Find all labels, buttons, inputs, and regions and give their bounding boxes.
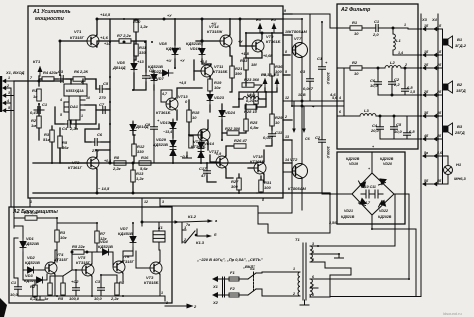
- svg-text:КД521В: КД521В: [25, 260, 40, 265]
- svg-text:+13: +13: [137, 59, 145, 64]
- wire C17: [206, 163, 208, 168]
- svg-text:R1: R1: [32, 88, 38, 93]
- diode VD10: [186, 41, 205, 59]
- wire ground bus out: [164, 296, 166, 301]
- ground protection: [36, 296, 44, 300]
- svg-text:3: 3: [162, 200, 164, 204]
- diode VD7p vertical: [118, 226, 136, 247]
- svg-text:Х4: Х4: [431, 17, 438, 22]
- svg-text:1: 1: [293, 267, 295, 271]
- wires lower protection: [50, 276, 63, 283]
- svg-text:КД451В: КД451В: [118, 231, 133, 236]
- svg-text:10к: 10к: [60, 235, 67, 240]
- svg-text:10: 10: [275, 120, 280, 125]
- wire VT9 base: [240, 45, 254, 47]
- svg-text:КТ1: КТ1: [33, 59, 41, 64]
- contact K1.3: [182, 222, 217, 245]
- resistor R28: [244, 105, 258, 114]
- filter internal bus: [343, 101, 345, 106]
- svg-text:2б: 2б: [423, 63, 429, 67]
- transistor VT8 KT805AM bottom: [288, 157, 308, 191]
- svg-text:36к: 36к: [62, 145, 69, 150]
- wire VT11 collector: [210, 64, 212, 65]
- svg-text:КТ805АМ: КТ805АМ: [289, 29, 308, 34]
- wire VT8 emitter: [301, 179, 303, 206]
- resistor R2 filter: [350, 60, 362, 76]
- connector X3 bus: [420, 14, 422, 296]
- svg-text:С1: С1: [374, 19, 380, 24]
- diode VD19: [346, 157, 366, 188]
- svg-text:2б: 2б: [436, 63, 442, 67]
- svg-text:КД521В: КД521В: [24, 241, 39, 246]
- svg-text:5а: 5а: [424, 151, 428, 155]
- wire K1.2 line out: [142, 221, 182, 223]
- transistor VT12: [191, 129, 210, 149]
- diode VD7p: [98, 239, 113, 255]
- inductor L1 filter: [393, 34, 401, 50]
- connector X1 pin 2: [2, 84, 11, 90]
- wire VT17: [210, 155, 216, 162]
- svg-text:1б: 1б: [437, 24, 442, 28]
- svg-text:КТ315Г: КТ315Г: [70, 35, 85, 40]
- svg-text:+14: +14: [104, 42, 110, 46]
- svg-text:− 14,5: − 14,5: [98, 186, 110, 191]
- wire VT1 emitter to R7: [97, 41, 119, 47]
- wire mid-left column x110: [109, 19, 111, 163]
- wire x351 vert: [330, 268, 351, 297]
- wire input bus a: [10, 88, 12, 103]
- wire x164 diode column: [174, 19, 176, 45]
- svg-text:F1: F1: [230, 270, 235, 275]
- svg-text:1б: 1б: [424, 50, 429, 54]
- wire bridge out right to connector: [405, 194, 409, 279]
- wire VT8 base: [283, 140, 292, 171]
- diode VD20: [379, 157, 394, 185]
- test point E3: [261, 72, 267, 88]
- svg-text:VD23: VD23: [214, 95, 225, 100]
- svg-text:КТ315Б: КТ315Б: [213, 69, 228, 74]
- svg-text:VD13: VD13: [160, 120, 171, 125]
- svg-text:4: 4: [6, 99, 9, 103]
- block A2 protection box: [9, 207, 172, 303]
- svg-text:2: 2: [165, 301, 168, 305]
- pin pair row2: [422, 50, 442, 57]
- wire x292 down: [291, 171, 293, 210]
- diode VD23: [207, 91, 225, 105]
- wire x292 to transformer area: [258, 210, 292, 213]
- svg-text:R6: R6: [74, 69, 80, 74]
- transistor VT7 KT805AM top: [289, 29, 308, 58]
- capacitor C13: [300, 69, 314, 91]
- svg-text:А2 Блок защиты: А2 Блок защиты: [12, 209, 58, 215]
- capacitor C6: [91, 132, 103, 153]
- svg-text:10: 10: [192, 115, 197, 120]
- resistor R10b: [139, 155, 151, 171]
- wire R6 row: [66, 78, 73, 80]
- pin pair row3: [422, 63, 442, 70]
- svg-text:2,2К: 2,2К: [79, 69, 89, 74]
- pin pair row4: [422, 90, 442, 97]
- inductor L3 filter: [360, 108, 376, 116]
- node dot input: [38, 80, 40, 82]
- svg-text:2,2к: 2,2к: [110, 296, 120, 301]
- svg-text:КД202В: КД202В: [378, 215, 392, 219]
- svg-text:Д814Д: Д814Д: [112, 65, 126, 70]
- svg-text:4,7: 4,7: [364, 201, 371, 205]
- svg-text:R8: R8: [114, 155, 120, 160]
- arrow tap b: [302, 106, 306, 133]
- resistor R8: [112, 155, 126, 171]
- wire VT12 base: [189, 134, 198, 136]
- svg-text:Т1: Т1: [295, 237, 300, 242]
- transistor VT11: [201, 64, 228, 77]
- wire x134 lower: [133, 135, 135, 144]
- svg-text:100: 100: [264, 185, 271, 190]
- svg-text:7а: 7а: [186, 223, 190, 227]
- inductor L1: [243, 92, 259, 99]
- resistor R17 loop: [161, 90, 172, 102]
- wire VT9 collector: [261, 33, 263, 39]
- svg-text:+С2: +С2: [71, 279, 79, 284]
- resistor R3p: [55, 230, 68, 242]
- svg-text:КД521В: КД521В: [166, 46, 181, 51]
- svg-text:+0,3В: +0,3В: [262, 73, 272, 77]
- block A1 amplifier box: [28, 6, 283, 198]
- svg-text:1: 1: [161, 291, 163, 295]
- wire R4 C3 row: [39, 78, 42, 80]
- arrow tap a: [292, 101, 296, 133]
- svg-text:47: 47: [200, 173, 206, 178]
- svg-text:−13,4: −13,4: [163, 130, 172, 134]
- svg-text:6: 6: [339, 110, 342, 114]
- svg-text:VD10: VD10: [190, 46, 201, 51]
- svg-text:10,0: 10,0: [94, 296, 103, 301]
- wire zener VD5 column: [133, 41, 135, 62]
- svg-text:390: 390: [235, 71, 242, 76]
- diode VD27: [148, 64, 173, 76]
- scan corner blob: [0, 298, 7, 317]
- wire VT5 em: [91, 276, 93, 296]
- wire filter row3: [337, 115, 360, 117]
- connector X2 pin1 arrow: [212, 276, 229, 289]
- connector X4 bus: [437, 14, 439, 184]
- wire top feed from A1: [29, 198, 31, 207]
- resistor R9p: [58, 283, 65, 301]
- wire fuse2 to switch: [239, 294, 248, 296]
- svg-text:100,0: 100,0: [69, 296, 80, 301]
- svg-text:А2 Фильтр: А2 Фильтр: [340, 7, 370, 13]
- resistor R4p: [95, 231, 108, 243]
- transistor VT18: [250, 154, 266, 174]
- transistor VT5p: [76, 255, 94, 276]
- svg-text:С17: С17: [199, 166, 207, 171]
- resistor R2p: [30, 284, 39, 301]
- capacitor C4f: [370, 123, 384, 133]
- svg-text:10к: 10к: [214, 85, 221, 90]
- wire VD24 col: [221, 104, 223, 110]
- wire x201 diode col low: [200, 130, 202, 140]
- svg-text:15ГД: 15ГД: [456, 88, 466, 93]
- svg-text:10,0: 10,0: [370, 83, 379, 88]
- wire row1 mid: [362, 27, 372, 29]
- resistor R23: [242, 77, 260, 87]
- svg-text:VT7: VT7: [294, 36, 302, 41]
- svg-text:КТ315Г: КТ315Г: [76, 260, 91, 265]
- wire relay feed: [142, 221, 159, 223]
- test point E3b: [274, 72, 280, 88]
- svg-text:9: 9: [284, 9, 286, 13]
- resistor R13: [131, 170, 145, 182]
- wire x173 diode col: [172, 120, 174, 138]
- diode VD24: [219, 107, 236, 121]
- svg-text:0,47: 0,47: [30, 110, 39, 115]
- svg-text:2: 2: [404, 63, 407, 67]
- svg-text:1: 1: [404, 23, 406, 27]
- wire switch to primary bottom: [256, 289, 288, 296]
- svg-text:L1: L1: [396, 38, 401, 43]
- svg-text:КТ315Г: КТ315Г: [54, 257, 69, 262]
- svg-text:С4: С4: [62, 126, 68, 131]
- resistor R36: [270, 64, 283, 76]
- svg-text:R23 360: R23 360: [244, 77, 260, 82]
- diode VD29: [153, 137, 176, 151]
- wire input node: [14, 80, 63, 82]
- svg-text:1,5: 1,5: [410, 90, 416, 94]
- svg-text:КТ315Ж: КТ315Ж: [207, 29, 223, 34]
- wire VT8 emitter to gnd rail: [301, 206, 303, 210]
- svg-text:2: 2: [292, 292, 295, 296]
- wire VT14 collector: [229, 19, 231, 35]
- transistor VT6p: [113, 254, 135, 273]
- svg-text:5: 5: [60, 113, 63, 117]
- capacitor C5: [96, 81, 109, 100]
- wire sec2 taps: [318, 262, 351, 268]
- svg-text:С6: С6: [305, 137, 311, 141]
- wire VT6 col: [123, 251, 133, 261]
- pin pair row1: [422, 24, 442, 31]
- wire KT1 testpoint lead: [38, 76, 40, 81]
- svg-text:3: 3: [312, 242, 314, 246]
- wire R21 down: [230, 47, 232, 66]
- svg-text:+14,5: +14,5: [100, 12, 111, 17]
- transistor VT3p: [144, 262, 162, 285]
- diode VD3p: [24, 273, 47, 283]
- resistor R4: [42, 70, 59, 81]
- wire VT12 col/em: [207, 120, 209, 129]
- wire bridge bottom wrap: [372, 224, 416, 296]
- wires bottom row protection: [18, 293, 165, 296]
- svg-text:3: 3: [8, 91, 10, 95]
- svg-text:С2: С2: [315, 135, 321, 140]
- lamp H1: [441, 156, 467, 184]
- connector X2 pin2 arrow: [212, 292, 229, 305]
- wire C5 C6 column x99: [95, 79, 97, 89]
- transformer secondary winding 1: [310, 242, 318, 262]
- svg-text:R22 300: R22 300: [225, 126, 241, 131]
- transistor VT13: [156, 94, 188, 115]
- wires caps row3: [379, 116, 381, 123]
- svg-text:5б: 5б: [424, 179, 429, 183]
- svg-text:3ГД-2: 3ГД-2: [455, 43, 467, 48]
- capacitor C3p: [94, 279, 105, 301]
- wire VT2: [60, 162, 87, 164]
- svg-text:0: 0: [185, 99, 188, 104]
- capacitor C1: [30, 102, 48, 115]
- wire -14.5 to bridge: [257, 192, 330, 194]
- wires caps row2: [377, 68, 379, 78]
- svg-text:К1.2: К1.2: [188, 214, 197, 219]
- capacitor C3f: [402, 85, 414, 95]
- diode VD13 pair: [160, 119, 176, 133]
- capacitor C5f: [391, 122, 403, 134]
- svg-text:5б: 5б: [437, 179, 442, 183]
- wire shield drop: [10, 103, 12, 207]
- svg-text:+1,8: +1,8: [241, 51, 250, 56]
- svg-text:20,0: 20,0: [370, 128, 380, 133]
- wire pin10 rail: [246, 32, 283, 34]
- wire L1 leads: [392, 28, 394, 34]
- svg-text:4б: 4б: [436, 134, 442, 138]
- svg-text:R7 2,2к: R7 2,2к: [117, 33, 132, 38]
- svg-text:МН6,3: МН6,3: [454, 176, 467, 181]
- svg-text:12: 12: [144, 200, 148, 204]
- diode VD1p: [20, 236, 39, 252]
- svg-text:КД521В: КД521В: [153, 142, 168, 147]
- wire out rail x292: [291, 50, 293, 106]
- svg-text:51к: 51к: [43, 137, 50, 142]
- resistor R5p: [72, 244, 86, 254]
- wire VT3 base: [136, 267, 150, 269]
- wire VT11 base: [194, 70, 201, 72]
- wire VT6 base: [112, 252, 114, 267]
- svg-text:10,0: 10,0: [149, 75, 158, 80]
- zener VD11: [130, 121, 149, 135]
- wire out node x302: [301, 100, 303, 120]
- wire junction dots: [123, 18, 125, 20]
- resistor R33: [240, 58, 257, 70]
- svg-text:3б: 3б: [437, 111, 442, 115]
- pin pair row8: [422, 179, 442, 186]
- svg-text:8,2Ом: 8,2Ом: [246, 98, 258, 103]
- svg-text:ldsound.ru: ldsound.ru: [443, 311, 462, 316]
- wire opamp feedback: [55, 107, 64, 124]
- bridge pins: [337, 193, 352, 195]
- svg-text:С1: С1: [11, 280, 17, 285]
- svg-text:В2: В2: [457, 82, 463, 87]
- wire filter row2 from left: [337, 67, 350, 69]
- svg-text:−0,9: −0,9: [214, 152, 221, 156]
- test point KT1: [33, 59, 42, 76]
- capacitor C4: [62, 121, 79, 132]
- svg-text:С3: С3: [300, 69, 306, 74]
- capacitor C9: [145, 118, 160, 133]
- svg-text:+U: +U: [166, 58, 171, 63]
- svg-text:8: 8: [262, 198, 264, 202]
- svg-text:+: +: [325, 60, 328, 65]
- inductor L2 filter: [385, 60, 401, 68]
- wire VT3 em: [159, 274, 161, 296]
- svg-text:1: 1: [81, 114, 83, 118]
- capacitor C10 bridge: [361, 185, 383, 205]
- resistor R11: [134, 44, 147, 56]
- wire VT1 collector: [96, 19, 98, 35]
- resistor R1 filter: [350, 20, 362, 36]
- diode VD22: [378, 201, 392, 220]
- svg-text:VD21: VD21: [344, 209, 353, 213]
- svg-text:Н1: Н1: [456, 162, 462, 167]
- op-amp DA1: [59, 80, 90, 120]
- svg-text:„~220 В 40Гц”, „Пр 0,5А”, „СЕТ: „~220 В 40Гц”, „Пр 0,5А”, „СЕТЬ”: [196, 257, 263, 262]
- resistor R6p: [44, 283, 52, 301]
- svg-text:В3: В3: [457, 124, 463, 129]
- transformer primary winding: [288, 267, 300, 296]
- svg-text:К1.3: К1.3: [196, 240, 205, 245]
- wire R4p: [96, 223, 98, 231]
- wire mid rail: [33, 162, 257, 164]
- svg-text:VD19: VD19: [349, 162, 358, 166]
- svg-text:7: 7: [30, 76, 33, 80]
- svg-text:КТ361Б: КТ361Б: [266, 39, 281, 44]
- svg-text:С7: С7: [99, 102, 105, 107]
- wire VT14 base: [196, 40, 220, 42]
- svg-text:3,5/9: 3,5/9: [329, 221, 337, 225]
- wire VT13: [177, 88, 202, 98]
- wire VT8 collector: [301, 120, 303, 163]
- wire VT9 emitter: [246, 52, 262, 58]
- svg-text:VT2: VT2: [290, 157, 298, 162]
- svg-text:6,8м: 6,8м: [250, 125, 259, 130]
- svg-text:+У: +У: [167, 14, 172, 18]
- svg-text:VD20: VD20: [383, 162, 392, 166]
- switch S1: [248, 266, 256, 295]
- bridge rectifier box: [337, 152, 405, 224]
- resistor R1: [32, 88, 41, 101]
- svg-text:10: 10: [354, 31, 359, 36]
- svg-text:DA1: DA1: [70, 104, 79, 109]
- wire row1 right: [382, 28, 421, 29]
- resistor R26: [234, 138, 248, 148]
- svg-text:1,2к: 1,2к: [140, 24, 149, 29]
- wire VT4 em: [54, 274, 56, 296]
- svg-text:8: 8: [312, 293, 314, 297]
- svg-text:VD22: VD22: [379, 209, 388, 213]
- svg-text:1к: 1к: [44, 296, 49, 301]
- wire VT11 emitter: [209, 77, 211, 79]
- wire R18 column: [188, 100, 190, 110]
- svg-text:L2: L2: [390, 60, 395, 65]
- wire C13: [309, 60, 311, 75]
- wire output to filter b: [292, 105, 337, 107]
- block A2 filter box: [337, 4, 418, 149]
- wire bridge top from transformer: [394, 194, 396, 246]
- svg-text:10 В: 10 В: [298, 93, 306, 97]
- wire VT7 collector: [283, 19, 302, 42]
- wire R27 R31 cols: [238, 174, 240, 178]
- resistor R25: [244, 119, 259, 131]
- svg-text:КТ815Б: КТ815Б: [144, 280, 159, 285]
- pin pair row7: [422, 151, 443, 158]
- svg-text:R1: R1: [352, 20, 358, 25]
- wire VT1 base: [60, 40, 87, 42]
- resistor R1p: [24, 210, 39, 220]
- ground secondary tap: [335, 254, 344, 258]
- svg-text:4б: 4б: [423, 134, 429, 138]
- svg-text:R26 47: R26 47: [234, 138, 248, 143]
- svg-text:+4,5: +4,5: [179, 81, 187, 85]
- svg-text:300: 300: [231, 184, 238, 189]
- svg-text:1: 1: [8, 76, 10, 80]
- capacitor C6f: [370, 78, 382, 88]
